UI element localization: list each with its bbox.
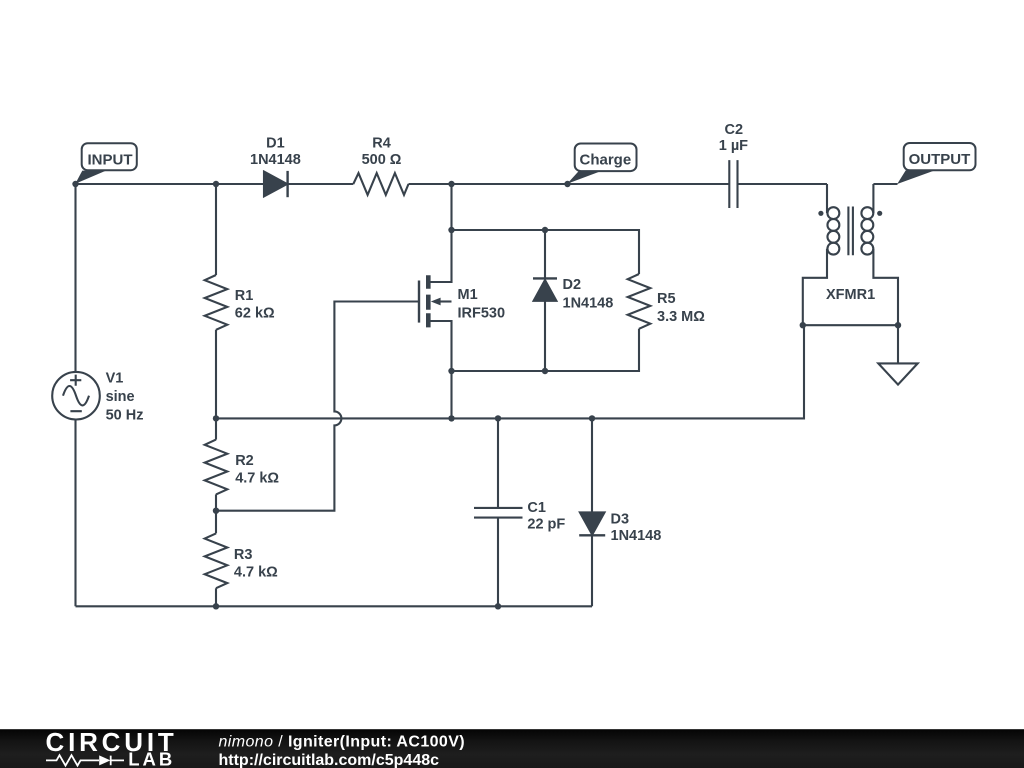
label M1 bbox=[458, 287, 506, 321]
svg-text:D2: D2 bbox=[563, 277, 582, 293]
capacitor C1 bbox=[474, 508, 523, 518]
flag Charge bbox=[567, 144, 636, 184]
svg-text:C1: C1 bbox=[527, 500, 546, 516]
label R2 bbox=[235, 453, 279, 487]
wire D3 column bbox=[591, 418, 593, 606]
svg-text:IRF530: IRF530 bbox=[458, 306, 506, 322]
diode D3 bbox=[579, 512, 605, 535]
svg-text:1N4148: 1N4148 bbox=[611, 528, 662, 544]
svg-text:OUTPUT: OUTPUT bbox=[909, 151, 971, 168]
wire M1 drain bbox=[430, 184, 451, 282]
label R1 bbox=[235, 288, 275, 322]
svg-text:R3: R3 bbox=[234, 547, 253, 563]
resistor R2 bbox=[205, 440, 228, 495]
svg-text:XFMR1: XFMR1 bbox=[826, 287, 875, 303]
svg-text:4.7 kΩ: 4.7 kΩ bbox=[235, 471, 279, 487]
wire gate with hop bbox=[216, 302, 419, 511]
diode D2 bbox=[533, 278, 557, 300]
ground bbox=[878, 325, 917, 384]
svg-text:C2: C2 bbox=[725, 122, 744, 138]
svg-text:Charge: Charge bbox=[580, 151, 632, 168]
svg-text:4.7 kΩ: 4.7 kΩ bbox=[234, 565, 278, 581]
label R3 bbox=[234, 547, 278, 581]
wire D2 column bbox=[544, 230, 546, 371]
resistor R3 bbox=[205, 533, 228, 588]
svg-text:3.3 MΩ: 3.3 MΩ bbox=[657, 309, 705, 325]
svg-text:sine: sine bbox=[106, 389, 135, 405]
wire C1 column bbox=[497, 418, 499, 606]
capacitor C2 bbox=[729, 160, 737, 208]
svg-text:R5: R5 bbox=[657, 291, 676, 307]
footer title bbox=[219, 734, 466, 768]
svg-text:62 kΩ: 62 kΩ bbox=[235, 306, 275, 322]
svg-text:R1: R1 bbox=[235, 288, 254, 304]
svg-text:nimono / Igniter(Input: AC100V: nimono / Igniter(Input: AC100V) bbox=[219, 734, 466, 751]
label R5 bbox=[657, 291, 705, 325]
footer bar bbox=[0, 729, 1024, 768]
label D3 bbox=[611, 512, 662, 544]
wire M1 body bbox=[438, 300, 452, 302]
label V1 bbox=[106, 371, 144, 424]
wire top rail bbox=[76, 183, 898, 185]
wire box top bbox=[452, 230, 640, 274]
diode D1 bbox=[264, 171, 288, 197]
svg-text:R2: R2 bbox=[235, 453, 254, 469]
svg-text:D3: D3 bbox=[611, 512, 630, 528]
footer logo CIRCUIT LAB bbox=[46, 727, 178, 768]
label XFMR1 bbox=[826, 287, 875, 303]
svg-text:50 Hz: 50 Hz bbox=[106, 408, 144, 424]
resistor R4 bbox=[353, 173, 408, 195]
svg-text:LAB: LAB bbox=[128, 749, 175, 768]
wire left rail bbox=[74, 184, 76, 606]
transformer XFMR1 bbox=[803, 184, 898, 325]
label C2 bbox=[719, 122, 748, 154]
label R4 bbox=[362, 136, 402, 168]
flag OUTPUT bbox=[897, 143, 975, 184]
transistor Q1 M1 mosfet bbox=[419, 275, 441, 327]
wire box bottom bbox=[452, 329, 640, 371]
svg-text:http://circuitlab.com/c5p448c: http://circuitlab.com/c5p448c bbox=[219, 752, 440, 768]
svg-text:22 pF: 22 pF bbox=[527, 517, 565, 533]
svg-text:500 Ω: 500 Ω bbox=[362, 152, 402, 168]
svg-text:1N4148: 1N4148 bbox=[563, 296, 614, 312]
label D2 bbox=[563, 277, 614, 311]
resistor R1 bbox=[205, 275, 228, 330]
voltage source V1 bbox=[52, 372, 100, 420]
resistor R5 bbox=[628, 274, 651, 329]
wire M1 source bbox=[430, 321, 451, 418]
svg-text:1 µF: 1 µF bbox=[719, 138, 748, 154]
flag INPUT bbox=[75, 143, 136, 184]
svg-text:D1: D1 bbox=[266, 136, 285, 152]
svg-text:1N4148: 1N4148 bbox=[250, 152, 301, 168]
label C1 bbox=[527, 500, 565, 532]
svg-text:M1: M1 bbox=[458, 287, 478, 303]
svg-text:V1: V1 bbox=[106, 371, 124, 387]
label D1 bbox=[250, 136, 301, 168]
svg-text:R4: R4 bbox=[372, 136, 391, 152]
wire bottom rail bbox=[76, 605, 593, 607]
wire R column bbox=[215, 184, 217, 606]
wire mid rail bbox=[216, 325, 804, 418]
svg-text:INPUT: INPUT bbox=[88, 152, 133, 169]
